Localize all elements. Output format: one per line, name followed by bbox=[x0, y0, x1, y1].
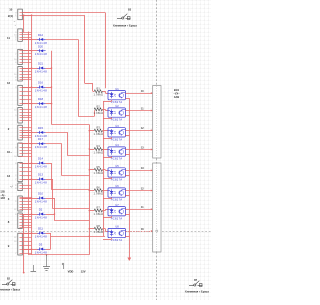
svg-text:1N4148: 1N4148 bbox=[35, 234, 47, 238]
svg-text:D2: D2 bbox=[39, 208, 43, 212]
svg-text:U8: U8 bbox=[115, 225, 119, 229]
svg-text:D14: D14 bbox=[38, 157, 43, 161]
svg-text:11: 11 bbox=[7, 36, 10, 40]
svg-text:12V: 12V bbox=[81, 270, 86, 274]
svg-text:10: 10 bbox=[9, 8, 13, 12]
svg-text:PC817A: PC817A bbox=[111, 238, 123, 242]
svg-text:8: 8 bbox=[15, 188, 16, 190]
svg-text:13: 13 bbox=[7, 174, 11, 178]
svg-text:10: 10 bbox=[14, 74, 16, 76]
svg-text:2: 2 bbox=[15, 39, 16, 41]
svg-text:1: 1 bbox=[15, 15, 16, 17]
svg-text:1N4148: 1N4148 bbox=[35, 41, 47, 45]
svg-text:1.96kΩ: 1.96kΩ bbox=[94, 171, 104, 175]
svg-text:1N4148: 1N4148 bbox=[35, 52, 47, 56]
svg-text:1N4148: 1N4148 bbox=[35, 134, 47, 138]
svg-text:U4: U4 bbox=[115, 143, 119, 147]
svg-text:D17: D17 bbox=[38, 137, 43, 141]
svg-text:4: 4 bbox=[15, 147, 16, 149]
svg-text:U7: U7 bbox=[115, 203, 119, 207]
svg-text:3: 3 bbox=[15, 87, 16, 89]
svg-text:~4y~: ~4y~ bbox=[0, 194, 6, 197]
svg-text:R7: R7 bbox=[97, 206, 101, 210]
svg-text:1N4148: 1N4148 bbox=[35, 69, 47, 73]
svg-text:PC817A: PC817A bbox=[111, 178, 123, 182]
svg-text:1N4148: 1N4148 bbox=[35, 250, 47, 254]
svg-text:1N4148: 1N4148 bbox=[35, 180, 47, 184]
svg-text:D20: D20 bbox=[38, 44, 43, 48]
svg-text:D10: D10 bbox=[38, 192, 43, 196]
svg-text:D21: D21 bbox=[38, 62, 43, 66]
svg-text:U6: U6 bbox=[115, 184, 119, 188]
svg-text:1.96kΩ: 1.96kΩ bbox=[94, 93, 104, 97]
svg-text:1.96kΩ: 1.96kΩ bbox=[94, 192, 104, 196]
svg-text:12: 12 bbox=[14, 209, 16, 211]
svg-text:4: 4 bbox=[15, 62, 16, 64]
svg-text:R4: R4 bbox=[97, 144, 101, 148]
svg-text:12: 12 bbox=[7, 81, 11, 85]
svg-text:6: 6 bbox=[15, 185, 16, 187]
svg-text:2: 2 bbox=[15, 53, 16, 55]
svg-text:U5: U5 bbox=[115, 164, 119, 168]
svg-text:1.96kΩ: 1.96kΩ bbox=[94, 212, 104, 216]
svg-text:D15: D15 bbox=[38, 126, 43, 130]
svg-text:12B: 12B bbox=[0, 192, 5, 194]
svg-text:PC817A: PC817A bbox=[111, 137, 123, 141]
svg-text:1N4148: 1N4148 bbox=[35, 105, 47, 109]
svg-text:1N4148: 1N4148 bbox=[35, 88, 47, 92]
svg-text:10: 10 bbox=[14, 109, 16, 111]
svg-text:R2: R2 bbox=[97, 104, 101, 108]
svg-text:D3: D3 bbox=[39, 243, 43, 247]
svg-text:VDD: VDD bbox=[68, 270, 74, 274]
svg-text:R3: R3 bbox=[97, 126, 101, 130]
svg-text:8: 8 bbox=[15, 163, 16, 165]
svg-text:Клеммная + Браса: Клеммная + Браса bbox=[113, 24, 137, 28]
svg-text:PC817A: PC817A bbox=[111, 157, 123, 161]
svg-text:1N4148: 1N4148 bbox=[35, 199, 47, 203]
svg-text:1.96kΩ: 1.96kΩ bbox=[94, 111, 104, 115]
svg-text:9: 9 bbox=[15, 201, 16, 203]
svg-text:9: 9 bbox=[15, 115, 16, 117]
svg-text:R6: R6 bbox=[97, 185, 101, 189]
svg-text:U3: U3 bbox=[115, 124, 119, 128]
svg-text:2: 2 bbox=[15, 175, 16, 177]
svg-text:3: 3 bbox=[15, 79, 16, 81]
svg-text:D18: D18 bbox=[38, 97, 43, 101]
svg-text:1.96kΩ: 1.96kΩ bbox=[94, 132, 104, 136]
svg-text:4AB: 4AB bbox=[0, 197, 5, 200]
svg-text:R1: R1 bbox=[97, 86, 101, 90]
svg-text:R5: R5 bbox=[97, 165, 101, 169]
svg-text:D13: D13 bbox=[38, 173, 43, 177]
svg-text:1N4148: 1N4148 bbox=[35, 145, 47, 149]
svg-text:U2: U2 bbox=[115, 104, 119, 108]
svg-text:~УX~: ~УX~ bbox=[173, 91, 180, 95]
svg-text:7: 7 bbox=[15, 179, 16, 181]
svg-text:PC817A: PC817A bbox=[111, 100, 123, 104]
svg-text:10: 10 bbox=[7, 150, 11, 154]
svg-text:1.96kΩ: 1.96kΩ bbox=[94, 150, 104, 154]
svg-text:1.96kΩ: 1.96kΩ bbox=[94, 230, 104, 234]
svg-text:8: 8 bbox=[15, 214, 16, 216]
svg-text:2(4): 2(4) bbox=[8, 14, 13, 18]
svg-text:10: 10 bbox=[14, 59, 16, 61]
svg-text:10: 10 bbox=[14, 241, 16, 243]
svg-text:D11: D11 bbox=[38, 227, 43, 231]
svg-text:Клеммная + Браса: Клеммная + Браса bbox=[185, 289, 209, 293]
svg-text:4AB: 4AB bbox=[174, 95, 179, 99]
svg-text:D12: D12 bbox=[38, 33, 43, 37]
svg-text:U1: U1 bbox=[115, 87, 119, 91]
svg-text:PC817A: PC817A bbox=[111, 118, 123, 122]
svg-text:BЭ1: BЭ1 bbox=[174, 88, 180, 92]
svg-text:PC817A: PC817A bbox=[111, 198, 123, 202]
svg-text:R8: R8 bbox=[97, 224, 101, 228]
svg-text:1N4148: 1N4148 bbox=[35, 164, 47, 168]
svg-text:D16: D16 bbox=[38, 81, 43, 85]
svg-text:PC817A: PC817A bbox=[111, 216, 123, 220]
svg-text:1N4148: 1N4148 bbox=[35, 215, 47, 219]
svg-text:7: 7 bbox=[15, 253, 16, 255]
svg-text:Клеммная + Браса: Клеммная + Браса bbox=[0, 288, 21, 291]
svg-text:12: 12 bbox=[14, 237, 16, 239]
svg-text:10: 10 bbox=[14, 156, 16, 158]
